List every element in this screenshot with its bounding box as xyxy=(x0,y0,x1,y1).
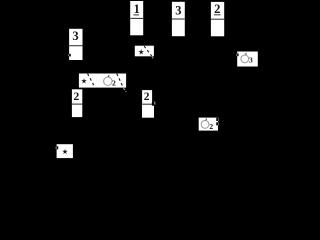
svg-text:2: 2 xyxy=(214,2,220,16)
svg-text:2: 2 xyxy=(112,79,116,88)
column A: cell with underlined 1 over empty cell xyxy=(130,1,143,35)
svg-text:2: 2 xyxy=(74,91,80,103)
box I: circle-3 xyxy=(237,52,258,67)
svg-text:3: 3 xyxy=(175,4,181,18)
arrowhead notch on column H right edge xyxy=(152,102,155,106)
svg-text:2: 2 xyxy=(144,91,150,103)
column G: cell 2 over empty cell xyxy=(72,89,82,117)
svg-text:1: 1 xyxy=(134,2,140,16)
arrowhead notch on column D left edge xyxy=(68,54,71,57)
box K: star xyxy=(57,144,73,158)
column C: cell with underlined 2 over empty cell xyxy=(211,2,224,36)
svg-text:3: 3 xyxy=(72,29,78,43)
box J: circle-2 with dashed right edge xyxy=(199,118,219,132)
box E: star with dashed diagonal xyxy=(135,46,154,59)
arrowhead notch on box I left edge xyxy=(236,53,238,56)
svg-text:2: 2 xyxy=(209,122,213,131)
box F: star, dashed diagonal, circle-2, dashed diagonal xyxy=(79,74,126,93)
arrowhead notch on box K left edge xyxy=(56,146,59,149)
column D: cell 3 over empty cell xyxy=(69,29,82,60)
svg-text:3: 3 xyxy=(249,55,253,64)
column B: cell 3 over empty cell xyxy=(172,2,185,36)
column H: cell 2 over empty cell xyxy=(142,90,154,118)
